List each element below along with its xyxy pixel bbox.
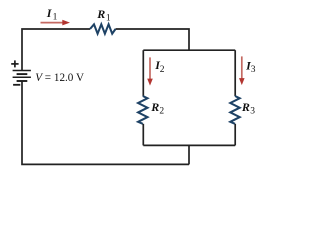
current arrow I1	[41, 20, 71, 26]
svg-text:R: R	[150, 100, 159, 114]
current arrow I2	[147, 57, 153, 85]
svg-text:3: 3	[251, 65, 256, 75]
wire: top right segment from R1 to drop node	[116, 29, 190, 50]
wire: R3 branch top lead	[234, 50, 236, 96]
wire: R2 branch top lead	[142, 50, 144, 96]
label R1	[96, 7, 111, 23]
wire: bottom drop from parallel box to bottom rail	[188, 145, 190, 164]
current arrow I3	[239, 56, 245, 85]
svg-text:R: R	[96, 7, 105, 21]
svg-text:2: 2	[159, 107, 164, 117]
battery V	[13, 71, 31, 82]
label I1	[46, 6, 58, 23]
svg-text:3: 3	[250, 107, 255, 117]
wire: inner parallel box top side	[143, 49, 235, 51]
wire: left branch top segment (battery + terminal up to top-left corner, across top to node)	[22, 29, 90, 71]
svg-text:2: 2	[160, 65, 165, 75]
label I2	[154, 58, 165, 75]
svg-text:1: 1	[106, 13, 111, 23]
resistor R3	[230, 96, 239, 124]
svg-text:R: R	[241, 100, 250, 114]
wire: bottom rail and left branch back to battery - terminal	[22, 81, 189, 164]
battery plus sign	[11, 60, 18, 67]
wire: R3 branch bottom lead	[234, 124, 236, 146]
wire: inner parallel box bottom side	[143, 144, 235, 146]
label battery value V = 12.0 V	[35, 70, 84, 84]
resistor R1	[90, 24, 116, 33]
label R3	[241, 100, 255, 117]
battery minus sign	[13, 84, 20, 86]
label R2	[150, 100, 164, 117]
svg-text:1: 1	[53, 12, 58, 22]
svg-text:V = 12.0 V: V = 12.0 V	[35, 70, 84, 84]
resistor R2	[138, 96, 147, 124]
wire: R2 branch bottom lead	[142, 124, 144, 146]
label I3	[245, 58, 256, 75]
